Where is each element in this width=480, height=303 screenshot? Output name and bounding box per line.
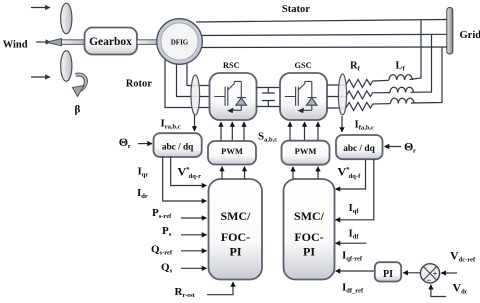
- resistor Rf a: [346, 79, 373, 87]
- wire a resistor to inductor: [373, 79, 390, 82]
- svg-text:Rr-est: Rr-est: [175, 286, 196, 299]
- rotor wire c: [165, 59, 209, 108]
- label Rf: [350, 61, 361, 73]
- DC link wire -: [257, 106, 281, 108]
- label Vdq-f: [338, 165, 362, 180]
- wire Vdc: [431, 285, 446, 297]
- svg-text:Qs: Qs: [161, 262, 173, 275]
- label Rr-est: [175, 286, 196, 299]
- svg-text:PWM: PWM: [295, 146, 317, 156]
- converter RSC: [210, 73, 257, 120]
- svg-text:Idf: Idf: [349, 228, 360, 241]
- high-speed shaft: [137, 40, 158, 45]
- wire Iqr: [171, 157, 207, 186]
- wire a inductor to grid riser: [409, 20, 421, 80]
- rotor wire b: [177, 60, 210, 97]
- label GSC: [295, 61, 312, 70]
- label Vdq-r: [178, 165, 202, 180]
- wire Iqf-ref: [336, 242, 367, 244]
- label Ps: [162, 225, 172, 238]
- IGBT Q2 with diode (GSC): [285, 81, 317, 113]
- DC link capacitor: [262, 88, 275, 107]
- svg-text:+: +: [433, 269, 438, 278]
- abc/dq block right: [336, 135, 383, 159]
- grid bus bar: [447, 8, 453, 55]
- wire Vdc-ref: [441, 272, 457, 274]
- turbine blade B2 (bottom): [61, 51, 72, 82]
- resistor Rf b: [346, 91, 373, 99]
- label Ps-ref: [152, 207, 172, 220]
- low-speed shaft: [56, 40, 86, 45]
- abc/dq block left: [154, 133, 202, 157]
- svg-text:Gearbox: Gearbox: [89, 36, 132, 48]
- label Vdc-ref: [450, 249, 476, 264]
- wire b resistor to inductor: [373, 92, 391, 94]
- inductor Lf b: [390, 87, 413, 92]
- DFIG generator: [157, 19, 203, 65]
- wind arrow 1: [31, 7, 50, 9]
- converter GSC: [280, 73, 327, 120]
- svg-text:DFIG: DFIG: [171, 38, 189, 46]
- wire Iqf: [336, 159, 366, 189]
- wire b inductor to grid riser: [410, 34, 431, 92]
- label Qs: [161, 262, 173, 275]
- label Idf-ref: [342, 282, 364, 295]
- gate wire GSC 3: [317, 122, 319, 141]
- svg-text:Θr: Θr: [119, 135, 131, 150]
- wire Qs: [181, 267, 207, 269]
- stator wire c: [199, 46, 447, 49]
- PWM block left: [208, 141, 256, 165]
- filter phase wire a: [327, 84, 346, 86]
- svg-text:abc / dq: abc / dq: [162, 142, 194, 152]
- DC link wire +: [257, 87, 281, 89]
- wire Ira sensor to abc/dq: [194, 115, 196, 131]
- label RSC: [223, 61, 240, 70]
- label Iqf: [349, 202, 360, 215]
- svg-text:Ifa,b,c: Ifa,b,c: [355, 119, 375, 132]
- svg-text:PI: PI: [303, 245, 315, 259]
- svg-text:V*dq-r: V*dq-r: [178, 165, 202, 180]
- label Lf: [396, 61, 406, 73]
- label theta-r right: [404, 140, 416, 155]
- label Idf: [349, 228, 360, 241]
- stator wire b: [199, 34, 447, 35]
- svg-text:GSC: GSC: [295, 61, 312, 70]
- gate wire RSC 2: [231, 122, 233, 141]
- label Idr: [137, 187, 148, 200]
- label Iqf-ref: [342, 250, 363, 263]
- SMC/FOC-PI block right: [284, 179, 335, 280]
- svg-text:Rotor: Rotor: [126, 79, 153, 90]
- inductor Lf c: [391, 98, 414, 103]
- wind arrow 3: [31, 76, 50, 78]
- wire Ifa sensor to abc/dq: [341, 116, 343, 132]
- filter current sensor: [338, 74, 346, 115]
- rotor wire a: [187, 58, 209, 86]
- resistor Rf c: [346, 102, 373, 110]
- svg-text:FOC-: FOC-: [221, 230, 250, 244]
- wire theta-r right: [385, 146, 402, 148]
- svg-text:Rf: Rf: [350, 61, 361, 73]
- summing junction: [420, 264, 439, 285]
- wire Idf: [336, 159, 374, 220]
- svg-text:Vdc: Vdc: [453, 281, 468, 296]
- svg-text:Stator: Stator: [282, 4, 310, 15]
- wire Vdq-f 1: [292, 167, 294, 179]
- filter phase wire c: [327, 107, 346, 109]
- wire Ps-ref: [181, 217, 207, 219]
- svg-text:PI: PI: [383, 269, 393, 280]
- SMC/FOC-PI block left: [209, 179, 263, 280]
- rotor current sensor: [191, 75, 200, 115]
- turbine blade B1 (top): [61, 3, 72, 34]
- svg-text:Wind: Wind: [3, 40, 28, 51]
- label Sa,b,c: [258, 131, 277, 144]
- wire Vdq-r 1: [221, 167, 223, 180]
- svg-text:Idr: Idr: [137, 187, 148, 200]
- wire Idr: [163, 157, 207, 201]
- label Grid: [460, 30, 480, 41]
- wire c resistor to inductor: [373, 103, 391, 105]
- label Stator: [282, 4, 310, 15]
- svg-text:Ps: Ps: [162, 225, 172, 238]
- label Vdc: [453, 281, 468, 296]
- wire Vdq-f 2: [317, 167, 319, 179]
- svg-text:V*dq-f: V*dq-f: [338, 165, 362, 180]
- inductor Lf a: [389, 75, 412, 80]
- svg-text:β: β: [75, 104, 81, 116]
- wire theta-r left: [138, 143, 152, 145]
- label Qs-ref: [151, 244, 173, 257]
- svg-text:Idf_ref: Idf_ref: [342, 282, 364, 295]
- gate wire RSC 1: [220, 122, 222, 141]
- label Rotor: [126, 79, 153, 90]
- svg-text:abc / dq: abc / dq: [343, 144, 375, 154]
- label Ira,b,c: [161, 118, 181, 131]
- IGBT Q1 with diode (RSC): [214, 81, 246, 113]
- svg-text:FOC-: FOC-: [294, 230, 323, 244]
- svg-text:Iqf: Iqf: [349, 202, 360, 215]
- pitch angle arrow: [73, 74, 86, 96]
- svg-text:Vdc-ref: Vdc-ref: [450, 249, 476, 264]
- PWM block right: [282, 141, 330, 165]
- wire Ps: [181, 234, 207, 236]
- label Iqr: [138, 165, 149, 178]
- label Wind: [3, 40, 28, 51]
- wire summer to PI: [403, 272, 420, 274]
- PI block: [375, 262, 401, 281]
- label theta-r left: [119, 135, 131, 150]
- svg-text:Iqf-ref: Iqf-ref: [342, 250, 363, 263]
- wire Rr-est: [207, 282, 233, 295]
- wire c inductor to grid riser: [411, 47, 442, 103]
- gate wire RSC 3: [243, 122, 245, 141]
- stator wire a: [196, 20, 447, 23]
- svg-text:Grid: Grid: [460, 30, 480, 41]
- svg-text:Sa,b,c: Sa,b,c: [258, 131, 277, 144]
- gate wire GSC 2: [304, 122, 306, 141]
- wind arrow 2: [36, 41, 50, 43]
- svg-text:Ira,b,c: Ira,b,c: [161, 118, 181, 131]
- wire Qs-ref: [181, 250, 207, 252]
- svg-text:SMC/: SMC/: [221, 209, 252, 223]
- wire Vdq-r 2: [244, 167, 246, 180]
- label beta: [75, 104, 81, 116]
- svg-text:−: −: [426, 275, 431, 285]
- gate wire GSC 1: [289, 122, 291, 141]
- wire Idf-ref: [336, 270, 375, 272]
- svg-text:RSC: RSC: [223, 61, 240, 70]
- svg-text:Ps-ref: Ps-ref: [152, 207, 172, 220]
- gearbox: [85, 28, 138, 55]
- svg-text:SMC/: SMC/: [294, 209, 325, 223]
- svg-text:PI: PI: [230, 245, 242, 259]
- svg-text:Iqr: Iqr: [138, 165, 149, 178]
- svg-text:Θr: Θr: [404, 140, 416, 155]
- hub nose cone: [46, 39, 62, 46]
- label Ifa,b,c: [355, 119, 375, 132]
- svg-text:Lf: Lf: [396, 61, 406, 73]
- svg-text:PWM: PWM: [221, 146, 243, 156]
- filter phase wire b: [327, 96, 346, 98]
- svg-text:Qs-ref: Qs-ref: [151, 244, 173, 257]
